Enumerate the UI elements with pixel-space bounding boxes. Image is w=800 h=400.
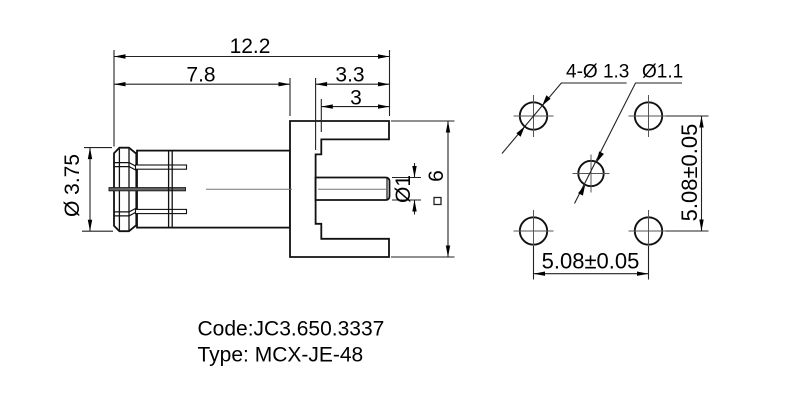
svg-text:Ø1: Ø1 [392,175,415,203]
dimension 5.08 vertical [666,116,709,231]
dimension 3.3 [316,78,390,150]
svg-text:3.3: 3.3 [335,64,364,87]
svg-text:12.2: 12.2 [230,35,271,58]
collet nose cap [114,148,136,232]
connector body (side view) [137,151,290,228]
svg-text:Type: MCX-JE-48: Type: MCX-JE-48 [198,344,364,367]
collet lower groove [115,208,137,216]
svg-text:Code:JC3.650.3337: Code:JC3.650.3337 [198,318,385,341]
upper slot finger [136,165,187,169]
dimension D1 [392,163,421,215]
svg-text:5.08±0.05: 5.08±0.05 [677,124,702,222]
dimension 12.2 [114,50,390,147]
lower slot finger [136,209,187,213]
center contact bar [109,188,186,191]
hole center [578,161,603,186]
hole top-right [635,102,662,129]
svg-text:6: 6 [425,170,448,182]
dimension 3 [321,99,389,132]
svg-text:Ø 3.75: Ø 3.75 [61,154,84,217]
collet upper groove [115,163,137,171]
collet rear edge lines [169,151,173,228]
leader 4-D1.3 [502,83,627,154]
dimension square 6 [391,121,455,257]
svg-text:5.08±0.05: 5.08±0.05 [542,249,640,274]
dimension D3.75 [82,148,113,232]
collet facet lines [119,149,129,231]
svg-text:4-Ø 1.3: 4-Ø 1.3 [566,62,629,83]
svg-text:3: 3 [350,87,362,110]
dimension 5.08 horizontal [534,246,649,280]
dimension 7.8 [114,78,290,116]
square symbol [434,198,441,205]
axis center line [206,188,387,190]
leader D1.1 [575,83,683,204]
mounting flange with legs [290,121,389,257]
hole bottom-left [520,217,547,244]
PCB footprint: hole top-left [520,102,547,129]
center pin [316,178,390,201]
hole bottom-right [635,217,662,244]
svg-text:Ø1.1: Ø1.1 [642,62,683,83]
svg-text:7.8: 7.8 [186,64,215,87]
